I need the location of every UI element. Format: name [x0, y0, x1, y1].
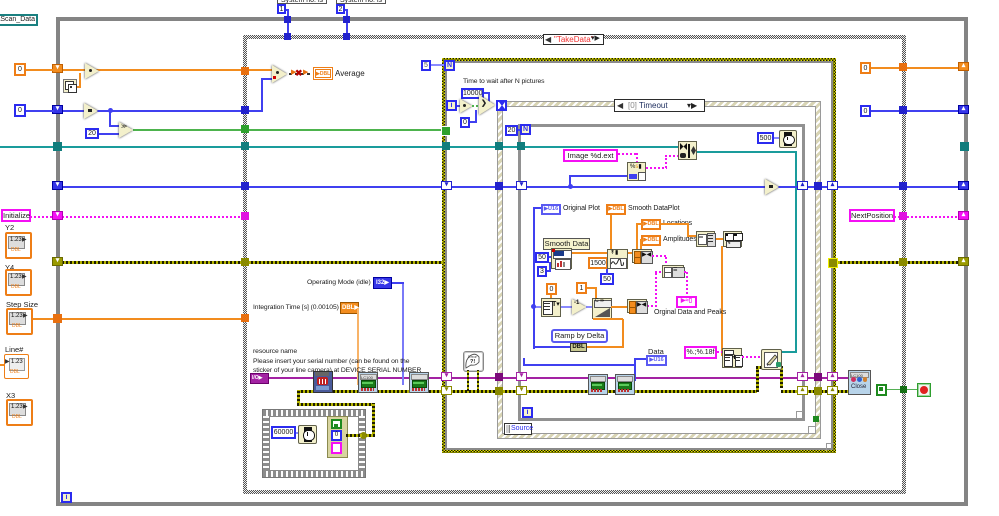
- wire orange locations: [636, 224, 638, 253]
- indicator Average DBL: [313, 67, 333, 80]
- error handler icon: [463, 351, 484, 372]
- constant 0 blue right: [860, 105, 871, 117]
- wire teal from imaq icon right: [696, 151, 797, 153]
- camera icon 4: [588, 374, 608, 395]
- wire blue trunk plot: [533, 207, 535, 349]
- wire magenta image name to format: [618, 153, 638, 155]
- string constant format spec: [684, 346, 717, 359]
- label Data: [648, 347, 664, 356]
- wire olive error icon legs: [467, 370, 469, 391]
- wire magenta format to imaq: [646, 167, 667, 169]
- shift register olive innerfor right y391: [797, 386, 808, 395]
- wire blue 0 to select: [470, 121, 477, 123]
- wire magenta format spec to icon: [717, 351, 724, 353]
- while loop stop terminal: [917, 383, 931, 397]
- tunnel purple event left: [495, 373, 503, 381]
- shift register blue while right y110: [958, 105, 969, 114]
- wire blue op mode down: [402, 283, 404, 385]
- wire teal image long left: [0, 146, 679, 148]
- wire teal vertical down: [795, 151, 797, 352]
- dice random icon: [63, 79, 77, 93]
- wire orange smoothplot vert: [610, 215, 612, 254]
- wire blue enum trunk to DBL tag: [533, 346, 571, 348]
- wire blue from constant 2 down through borders: [346, 9, 348, 36]
- wire orange Step Size: [29, 318, 245, 320]
- indicator Line#: [5, 345, 23, 354]
- constant 0 orange left row1: [14, 63, 26, 76]
- shift register blue for right y186: [827, 181, 838, 190]
- wire orange ramp to build: [611, 306, 628, 308]
- tunnel teal while right: [960, 142, 969, 151]
- constant 2: [336, 4, 345, 14]
- wire orange between cluster icons: [714, 238, 724, 240]
- tunnel green case right stop: [900, 386, 907, 393]
- wire magenta Initialize: [30, 216, 56, 218]
- label resource name block: [253, 347, 421, 376]
- tunnel blue case left row2: [241, 106, 249, 114]
- camera icon 5: [615, 374, 635, 395]
- wire olive error detour write icon: [756, 366, 759, 392]
- shift register blue for left y186: [441, 181, 452, 190]
- wire green stop row: [887, 389, 920, 390]
- tunnel teal event left: [495, 142, 503, 150]
- control terminal DBL orange: [340, 302, 359, 314]
- shift register purple for left: [441, 372, 452, 381]
- label System no. is one: [277, 0, 327, 4]
- camera icon 3: [409, 372, 429, 393]
- shift register orange left: [52, 64, 63, 73]
- node junction blue plot: [531, 304, 536, 309]
- wait ms icon: [779, 130, 797, 148]
- wire magenta bottom build to unbundle: [647, 305, 657, 307]
- tunnel blue case left y186: [241, 182, 249, 190]
- wire blue 5 to N: [431, 64, 445, 66]
- array to spreadsheet string icon: [722, 348, 742, 368]
- wire blue 20 to compare: [96, 133, 121, 135]
- label Operating Mode (idle): [307, 279, 371, 287]
- corner resize glyph event: [808, 426, 815, 433]
- unbundle icon: [662, 265, 684, 278]
- tunnel orange case right y67: [899, 63, 907, 71]
- event timeout terminal: [496, 100, 507, 111]
- constant 0 orange right: [860, 62, 871, 74]
- cluster vi icon a: [696, 231, 715, 247]
- constant 0 orange ramp: [546, 283, 557, 295]
- node subtract-1 triangle: [572, 299, 586, 315]
- build array icon top: [632, 249, 652, 263]
- indicator Locations: [641, 219, 661, 230]
- control Y4: [5, 263, 14, 272]
- wire magenta unbundle out: [684, 271, 688, 273]
- tunnel blue on case top for const1: [284, 33, 291, 40]
- flat sequence frame: [262, 409, 366, 478]
- tunnel orange case left stepsize: [241, 314, 249, 322]
- tunnel green innerfor bottom: [813, 416, 819, 422]
- control X3: [6, 391, 15, 400]
- shift register blue left row2: [52, 105, 63, 114]
- wire blue 500 to wait: [774, 137, 780, 139]
- tunnel blue case right y186: [899, 182, 907, 190]
- wire green inside case to for loop: [247, 129, 443, 131]
- wire blue i to equal: [457, 105, 461, 107]
- constant 3 blue: [537, 266, 547, 277]
- constant 50 blue: [535, 252, 549, 263]
- wire blue branch up to divide: [261, 78, 263, 111]
- tunnel teal for left: [442, 142, 450, 150]
- constant 1: [277, 4, 286, 14]
- case selector header "TakeData": [543, 34, 604, 45]
- tunnel olive for right y262: [828, 258, 838, 268]
- boolean False constant: [876, 384, 887, 396]
- node greater-equal triangle: [119, 122, 133, 138]
- inner for loop N=20 frame: [518, 124, 805, 421]
- shift register olive while left: [52, 257, 63, 266]
- wire orange row1 left: [62, 69, 274, 71]
- LC100 close icon: [848, 370, 871, 395]
- indicator Amplitudes: [641, 235, 661, 246]
- shift register olive while right: [958, 257, 969, 266]
- control terminal I32 blue: [373, 277, 392, 289]
- shift register blue innerfor right y186: [797, 181, 808, 190]
- camera init icon: [313, 371, 333, 393]
- wire orange dice to multiply: [75, 86, 81, 88]
- wire blue row2 left: [62, 110, 244, 112]
- control Y2: [5, 223, 14, 232]
- wire blue 0 to shift reg: [26, 110, 54, 112]
- while loop iteration terminal i: [61, 492, 72, 503]
- label NextPosition: [849, 209, 895, 222]
- inner for iteration terminal i: [522, 407, 533, 418]
- wire magenta NextPosition: [894, 216, 904, 218]
- wire teal to write icon: [780, 351, 797, 353]
- shift register blue left y186: [52, 181, 63, 190]
- node olive junction dot: [360, 432, 367, 439]
- node select triangle: [479, 95, 495, 115]
- tunnel teal innerfor left: [517, 142, 525, 150]
- DBL coercion tag: [570, 343, 587, 352]
- wire blue branch to format icon: [569, 176, 571, 186]
- index array icon: [541, 298, 561, 317]
- corner resize glyph innerfor: [796, 411, 803, 418]
- tunnel teal while left: [53, 142, 62, 151]
- event structure [0] Timeout frame: [497, 101, 821, 439]
- indicator peaks cluster pink: [676, 296, 697, 308]
- shift register orange while right: [958, 62, 969, 71]
- flat seq constant 60000: [271, 426, 296, 439]
- tunnel teal case left: [241, 142, 249, 150]
- constant 10000: [461, 88, 484, 99]
- tunnel olive case left: [241, 258, 249, 266]
- cluster constant bool int string: [327, 416, 348, 458]
- event data node Source: [504, 423, 532, 435]
- shift register olive for left y391: [441, 386, 452, 395]
- wire olive error flat seq branch: [297, 390, 300, 405]
- shift register purple innerfor right: [797, 372, 808, 381]
- tunnel blue on while top for const2: [343, 16, 350, 23]
- shift register purple for right: [827, 372, 838, 381]
- indicator Data U16: [646, 355, 667, 366]
- event selector header [0] Timeout: [614, 99, 705, 112]
- wire blue data row: [524, 364, 636, 366]
- iteration terminal i for loop: [446, 100, 457, 111]
- wire blue 20 to N: [518, 129, 522, 131]
- tunnel blue event right y186: [814, 182, 822, 190]
- wire purple VISA row: [268, 377, 849, 379]
- label Initialize: [1, 209, 31, 222]
- constant 20 blue: [85, 128, 99, 139]
- wire blue from constant 1 down through borders: [287, 9, 289, 36]
- wire orange locations right to cluster icon: [661, 223, 689, 225]
- wire violet index to triangle to ramp: [533, 306, 543, 308]
- camera icon 2: [358, 372, 378, 393]
- wire blue branch down to compare: [109, 110, 111, 127]
- constant 50 blue second: [600, 273, 614, 285]
- IMAQ write icon: [678, 141, 697, 160]
- tunnel magenta case right: [899, 212, 907, 220]
- for loop N=5 frame: [442, 58, 836, 453]
- wire orange amplitudes: [640, 239, 642, 253]
- wire orange down from grid icon: [721, 246, 723, 356]
- shift register blue innerfor left y186: [516, 181, 527, 190]
- shift register olive innerfor left y391: [516, 386, 527, 395]
- wire olive error y262 right of for loop: [836, 261, 962, 264]
- label Time to wait after N pictures: [463, 78, 544, 86]
- enum Ramp by Delta: [551, 329, 608, 343]
- tunnel magenta case left: [241, 212, 249, 220]
- node divide triangle: [272, 65, 287, 83]
- flat seq wait ms icon: [298, 425, 317, 444]
- corner resize glyph for loop: [826, 443, 834, 451]
- node equal-zero triangle: [460, 99, 472, 113]
- wire olive cluster out: [346, 434, 362, 437]
- wire orange 0 to shift reg: [26, 69, 54, 71]
- broken wire dashes to Average: [289, 73, 313, 75]
- wire green compare to case: [133, 129, 246, 131]
- tunnel purple event right: [814, 373, 822, 381]
- wire orange Line# stub: [0, 364, 6, 366]
- wire orange integration down: [357, 308, 359, 385]
- smooth vi icon: [551, 248, 572, 269]
- ramp pattern icon: [592, 298, 612, 319]
- peak detector icon: [607, 249, 628, 269]
- tunnel blue event left y186: [495, 182, 503, 190]
- indicator Smooth DataPlot: [606, 204, 626, 215]
- grid vi icon b: [723, 231, 742, 247]
- wire orange right 0 to shift reg: [871, 67, 961, 69]
- tunnel olive event right y391: [814, 387, 822, 395]
- control Step Size: [6, 300, 38, 309]
- wire orange smooth out: [571, 252, 633, 254]
- wire green equal to select: [472, 105, 480, 107]
- wire magenta to write icon: [742, 356, 762, 358]
- wire blue 50/3 stubs: [549, 256, 553, 258]
- string constant Image %d.ext: [563, 149, 618, 162]
- constant 1 orange ramp: [576, 282, 587, 294]
- tunnel blue case right y110: [899, 106, 907, 114]
- for loop count terminal N: [444, 60, 455, 71]
- constant 0 blue left row2: [14, 104, 26, 117]
- tunnel orange while left stepsize: [53, 314, 62, 323]
- node junction dot: [108, 108, 113, 113]
- tunnel blue on while top for const1: [284, 16, 291, 23]
- shift register magenta while right: [958, 211, 969, 220]
- wire magenta cluster top path: [652, 255, 667, 257]
- wire orange DBL tag to ramp: [587, 346, 624, 348]
- shift register olive for right y391: [827, 386, 838, 395]
- build array icon bottom: [627, 299, 647, 313]
- shift register purple innerfor left: [516, 372, 527, 381]
- node increment triangle right: [765, 179, 779, 195]
- shift register magenta while left: [52, 211, 63, 220]
- VISA resource control: [250, 373, 269, 384]
- wire olive error y262 left: [62, 261, 244, 264]
- label Orginal Data and Peaks: [654, 309, 726, 317]
- node increment triangle: [84, 103, 98, 119]
- tunnel blue on case top for const2: [343, 33, 350, 40]
- constant 500: [757, 132, 774, 144]
- wire olive error row y391: [297, 390, 757, 393]
- wire blue long row y186: [62, 186, 961, 188]
- wire blue case entry stub: [247, 110, 263, 112]
- indicator Original Plot: [541, 204, 561, 215]
- tunnel orange case left row1: [241, 67, 249, 75]
- node junction dot blue: [568, 184, 573, 189]
- tunnel olive case right y262: [899, 258, 907, 266]
- node multiply triangle: [85, 63, 99, 79]
- inner for count terminal N: [520, 124, 531, 135]
- constant 1500: [588, 257, 608, 269]
- tunnel green case left: [241, 125, 249, 133]
- write to text file icon: [761, 349, 782, 370]
- constant 5: [421, 60, 431, 71]
- tunnel olive event left y391: [495, 387, 503, 395]
- case structure TakeData frame: [243, 35, 906, 494]
- wire blue right 0 to shift reg: [871, 110, 961, 112]
- inner for constant 20: [505, 125, 518, 136]
- label Smooth Data: [543, 238, 590, 250]
- wire blue 10000 to select: [484, 92, 490, 94]
- constant 0 blue small: [460, 117, 470, 128]
- tunnel green for loop left: [441, 126, 451, 136]
- label Integration Time: [253, 304, 339, 312]
- path constant e\Scan_Data: [0, 14, 38, 26]
- shift register blue while right y186: [958, 181, 969, 190]
- label System no. is two: [336, 0, 386, 4]
- format into string icon: [627, 162, 646, 181]
